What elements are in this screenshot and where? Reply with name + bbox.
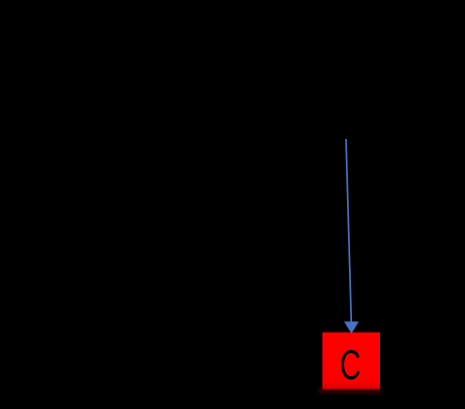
svg-text:C: C [340,342,361,388]
arrow shaft [346,139,351,322]
block C (red square) [322,332,380,389]
arrowhead [344,322,359,334]
shadow under block [319,388,381,393]
